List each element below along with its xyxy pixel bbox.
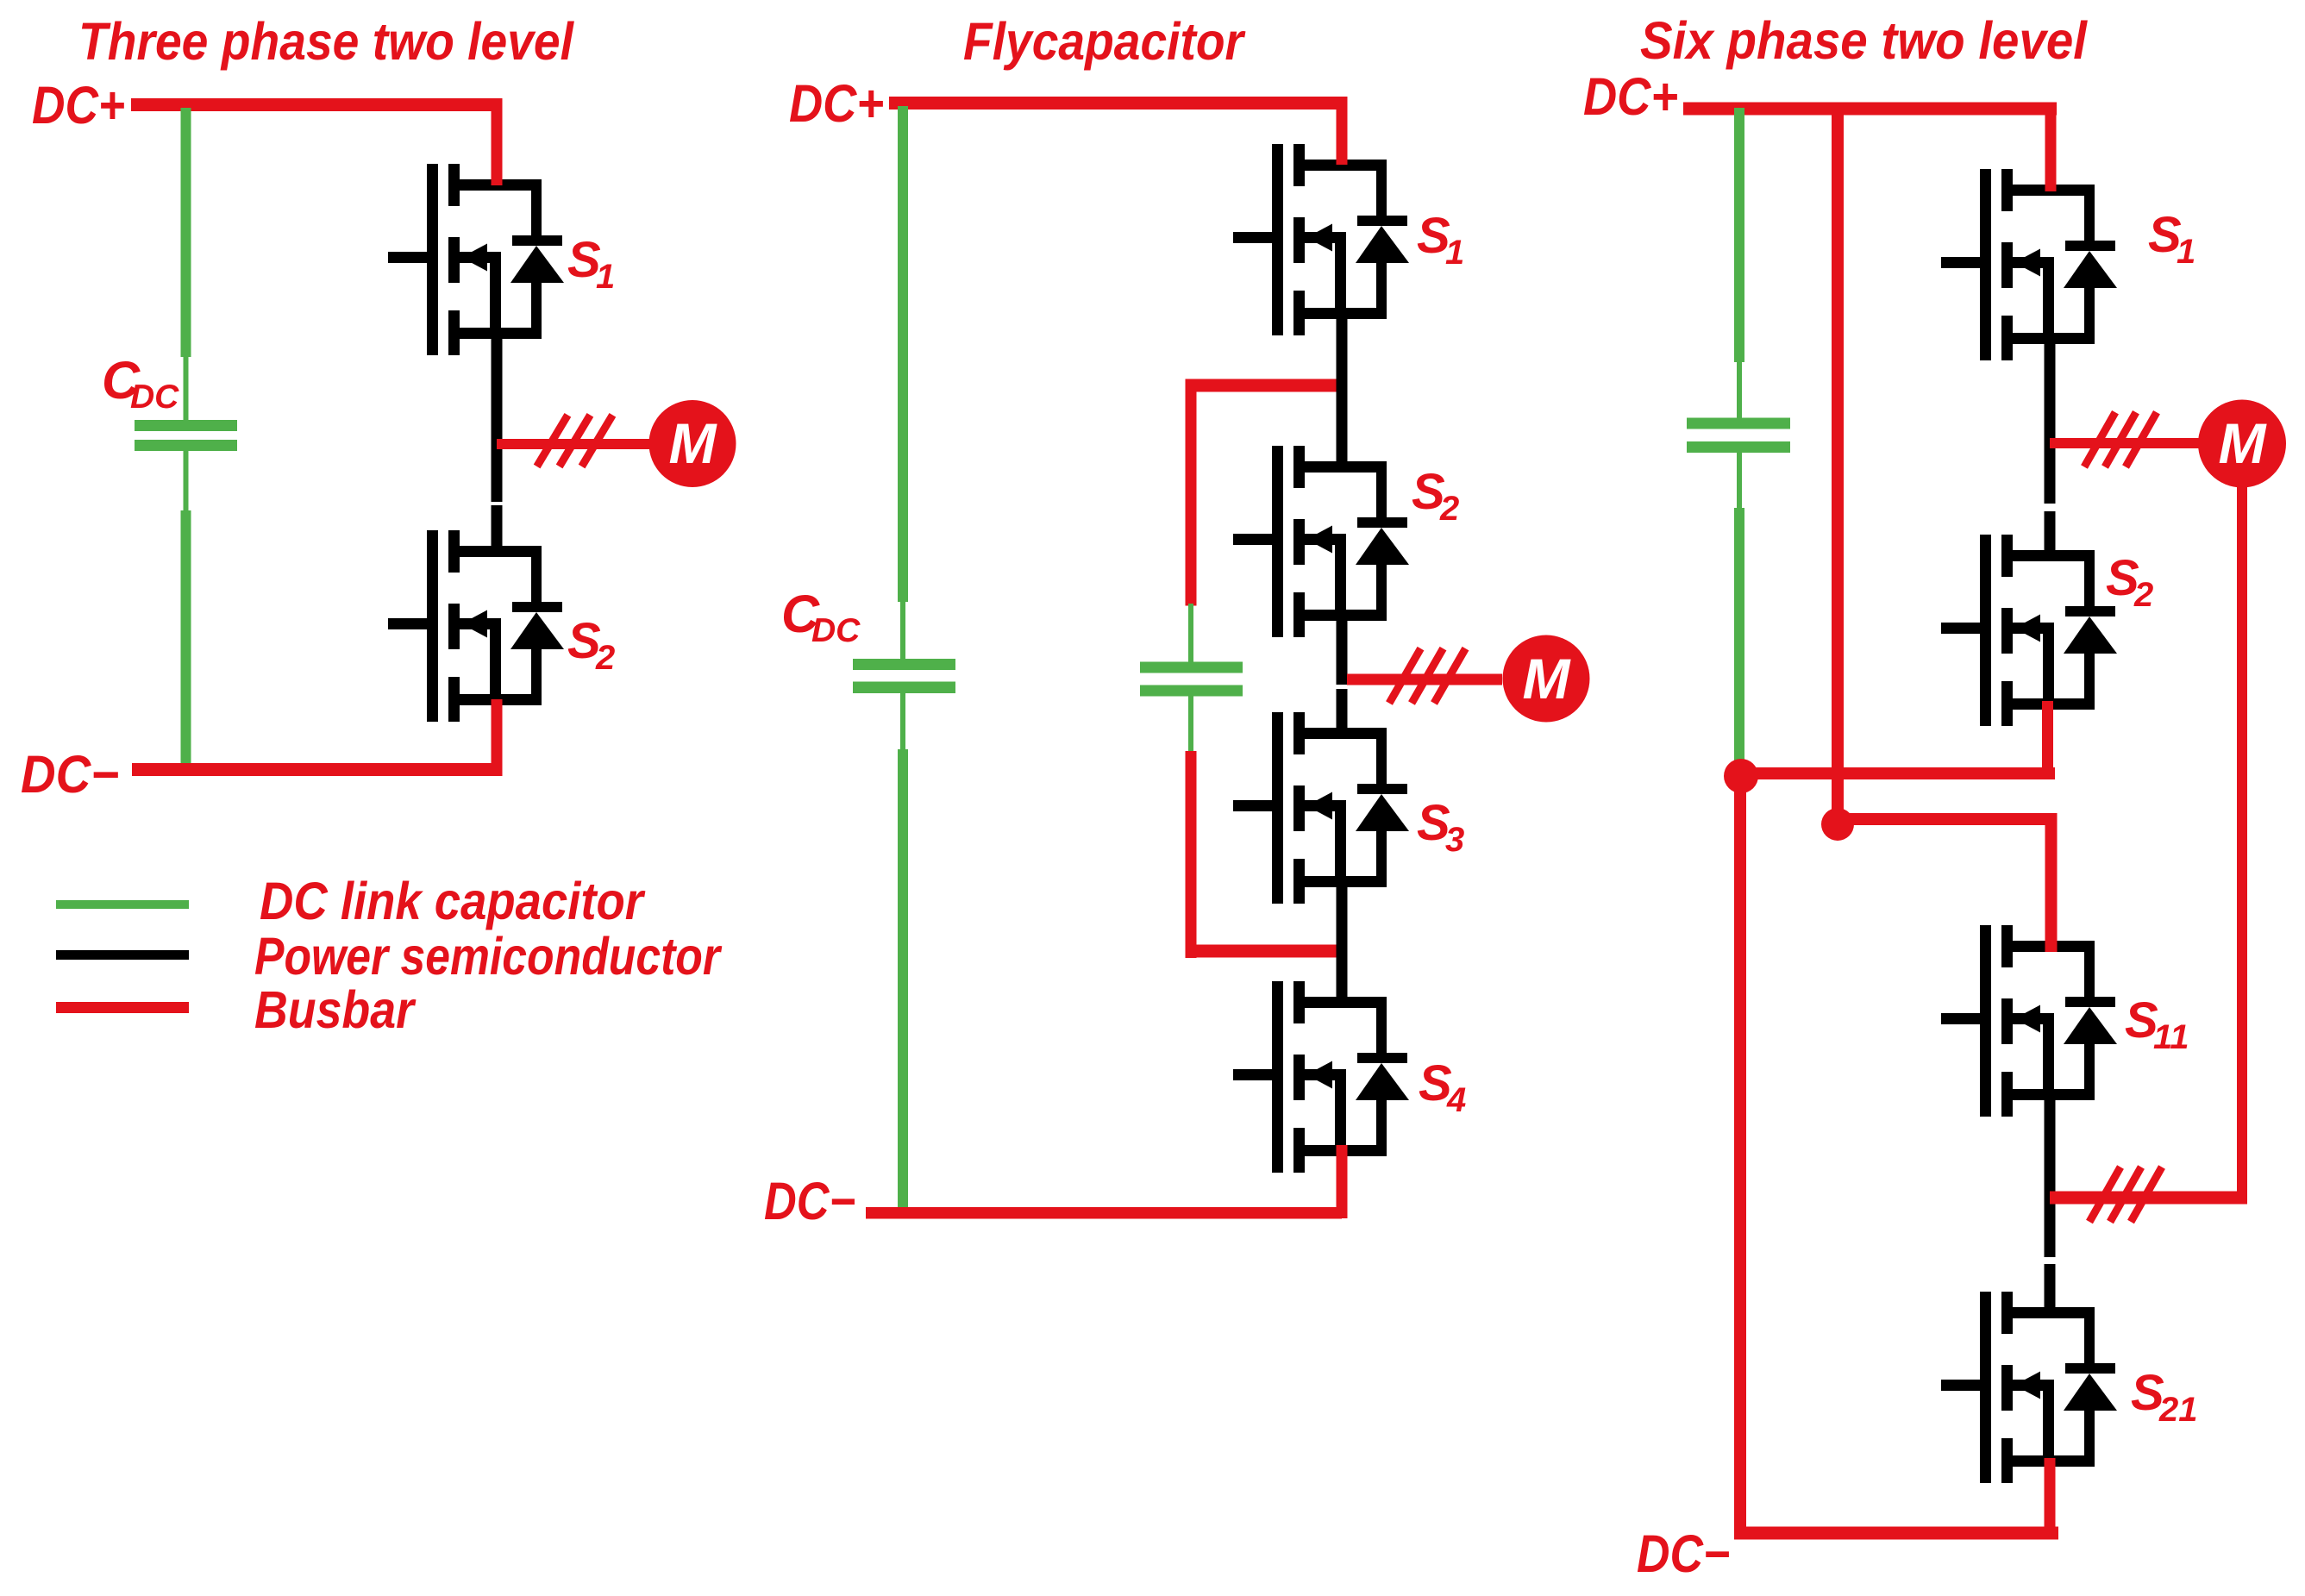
- svg-text:DC link capacitor: DC link capacitor: [260, 872, 646, 930]
- svg-text:Power semiconductor: Power semiconductor: [254, 927, 723, 986]
- label S2 (right): [2106, 550, 2153, 614]
- svg-text:Three phase two level: Three phase two level: [78, 12, 574, 71]
- svg-text:DC+: DC+: [32, 76, 125, 135]
- wire green DC-link capacitor upper lead (left): [181, 108, 191, 420]
- svg-text:Six phase two level: Six phase two level: [1640, 11, 2088, 70]
- svg-text:DC+: DC+: [1583, 67, 1678, 126]
- svg-text:1: 1: [596, 258, 615, 296]
- wire black S1 source to S2 drain (right): [2045, 338, 2056, 550]
- phase count slashes output 2 (right): [2089, 1167, 2162, 1223]
- svg-text:DC: DC: [130, 379, 179, 416]
- svg-text:DC−: DC−: [1637, 1524, 1730, 1583]
- junction node B (right): [1821, 808, 1854, 841]
- label S1 (left): [567, 232, 615, 296]
- busbar DC- (left): [132, 763, 498, 776]
- busbar DC+ (middle): [889, 97, 1348, 165]
- flying capacitor C_fly (middle): [1140, 662, 1243, 697]
- wire black S1 source to S2 drain (left): [492, 339, 503, 551]
- transistor S11 (right): [1941, 925, 2117, 1117]
- capacitor C_DC (middle): [853, 659, 955, 693]
- transistor S3 (middle): [1233, 712, 1409, 904]
- svg-text:M: M: [1523, 647, 1572, 710]
- label S2 (middle): [1412, 464, 1459, 528]
- busbar node A down to DC- (right): [1734, 776, 1746, 1533]
- busbar motor M down to phase output 2 (right): [2237, 483, 2247, 1204]
- svg-text:3: 3: [1445, 821, 1464, 859]
- svg-text:2: 2: [1439, 490, 1459, 528]
- wire green flying-capacitor top lead (middle): [1188, 604, 1193, 662]
- transistor S2 (middle): [1233, 446, 1409, 637]
- motor M (middle): [1503, 635, 1590, 723]
- capacitor C_DC (left): [135, 420, 237, 451]
- label S1 (middle): [1417, 208, 1464, 272]
- busbar DC+ second branch down to node B (right): [1832, 103, 1844, 813]
- busbar node A horizontal (right): [1740, 767, 2055, 779]
- wire green DC-link capacitor lower lead (middle): [898, 693, 908, 1217]
- wire green DC-link capacitor upper lead (right): [1734, 108, 1744, 418]
- busbar phase output to motor (middle): [1347, 674, 1502, 685]
- phase count slashes output 1 (right): [2084, 412, 2157, 466]
- phase count slashes (left): [537, 415, 613, 466]
- transistor S21 (right): [1941, 1292, 2117, 1483]
- wire green DC-link capacitor lower lead (left): [181, 451, 191, 767]
- legend swatch: Power semiconductor (black): [56, 950, 189, 960]
- svg-text:M: M: [669, 411, 718, 475]
- label C_DC (middle): [781, 585, 861, 649]
- label S4 (middle): [1419, 1055, 1466, 1119]
- label S21 (right): [2131, 1365, 2198, 1429]
- busbar DC- (right): [1734, 1527, 2058, 1540]
- transistor S1 (middle): [1233, 144, 1409, 335]
- wire red DC+ bus to S1 drain (right): [2045, 115, 2057, 191]
- wire black S3 source to S4 drain (middle): [1337, 882, 1348, 1002]
- wire red S2 source to node A (right): [2042, 701, 2053, 779]
- capacitor C_DC (right): [1687, 418, 1790, 454]
- busbar phase output to motor (left): [497, 439, 650, 449]
- motor M (right): [2198, 400, 2286, 488]
- busbar flying-capacitor upper branch (middle): [1186, 379, 1348, 606]
- svg-text:DC: DC: [811, 612, 861, 649]
- wire red S2 source to DC- bus (left): [492, 699, 503, 776]
- svg-text:DC+: DC+: [789, 74, 884, 133]
- busbar phase output 2 (right): [2050, 1192, 2247, 1205]
- svg-text:4: 4: [1446, 1081, 1466, 1119]
- svg-text:1: 1: [2177, 233, 2195, 271]
- svg-text:DC−: DC−: [764, 1172, 855, 1230]
- svg-text:Busbar: Busbar: [254, 980, 417, 1039]
- wire red DC+ bus to S1 drain (left): [492, 98, 503, 185]
- svg-text:2: 2: [2133, 576, 2153, 614]
- label S3 (middle): [1417, 795, 1464, 859]
- svg-text:2: 2: [595, 639, 615, 677]
- label S1 (right): [2148, 207, 2195, 271]
- svg-text:Flycapacitor: Flycapacitor: [963, 12, 1246, 71]
- svg-text:DC−: DC−: [21, 745, 119, 804]
- label S11 (right): [2125, 992, 2189, 1056]
- phase count slashes (middle): [1389, 648, 1466, 703]
- wire black S11 source to S21 drain (right): [2045, 1094, 2056, 1307]
- label S2 (left): [567, 613, 615, 677]
- wire red S21 source to DC- bus (right): [2045, 1458, 2056, 1533]
- svg-text:11: 11: [2153, 1018, 2189, 1056]
- wire green DC-link capacitor upper lead (middle): [898, 106, 908, 660]
- junction node A (right): [1724, 759, 1758, 793]
- wire black S1 source to S2 drain (middle): [1337, 313, 1348, 466]
- svg-text:M: M: [2219, 411, 2268, 475]
- busbar phase output 1 to motor (right): [2050, 438, 2199, 448]
- transistor S2 (left): [388, 530, 564, 722]
- busbar DC- (middle): [866, 1207, 1342, 1219]
- legend swatch: DC link capacitor (green): [56, 900, 189, 909]
- transistor S4 (middle): [1233, 981, 1409, 1173]
- svg-text:21: 21: [2158, 1391, 2198, 1429]
- busbar flying-capacitor lower branch (middle): [1186, 751, 1343, 958]
- busbar DC+ (right): [1683, 103, 2057, 185]
- wire green flying-capacitor bottom lead (middle): [1188, 697, 1193, 754]
- busbar DC+ (left): [131, 98, 498, 111]
- svg-text:1: 1: [1445, 234, 1464, 272]
- label C_DC (left): [102, 351, 179, 416]
- wire black S2 source to S3 drain (middle): [1337, 615, 1348, 733]
- wire red DC+ bus to S1 drain (middle): [1337, 110, 1348, 165]
- motor M (left): [649, 400, 736, 487]
- busbar node B to S11 drain (right): [1838, 813, 2058, 952]
- transistor S1 (left): [388, 164, 564, 355]
- transistor S2 (right): [1941, 535, 2117, 726]
- transistor S1 (right): [1941, 169, 2117, 360]
- wire green DC-link capacitor lower lead (right): [1734, 453, 1744, 766]
- wire red S4 source to DC- bus (middle): [1337, 1145, 1348, 1218]
- legend swatch: Busbar (red): [56, 1002, 189, 1013]
